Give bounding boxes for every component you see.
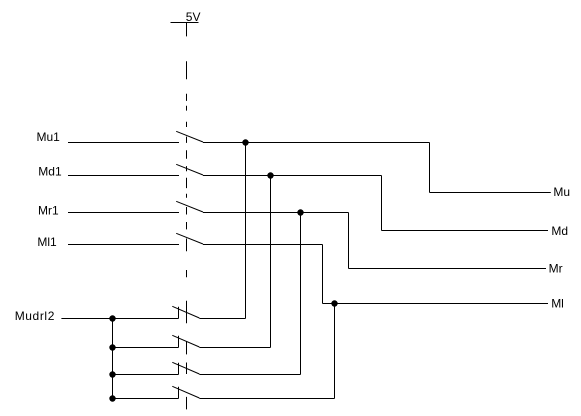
junction node bus row3: [109, 371, 115, 377]
wire row4 input: [113, 398, 179, 400]
switch row2 post: [178, 336, 180, 348]
wire Mudrl2 bus vertical: [112, 319, 114, 399]
wire Ml output: [323, 303, 549, 305]
power rail 5V bar: [171, 22, 199, 24]
junction node Mu1/row1: [242, 139, 248, 145]
wire row3 output: [199, 374, 300, 376]
wire Mu corner down: [429, 143, 431, 193]
switch row3 blade: [172, 362, 199, 374]
wire Ml1 input: [68, 244, 179, 246]
wire Ml corner down: [322, 245, 324, 304]
wire vertical Mu1 to row1 switch: [245, 143, 247, 319]
wire Ml1 output: [203, 244, 323, 246]
svg-text:5V: 5V: [186, 10, 201, 24]
wire Mr corner down: [348, 213, 350, 269]
svg-text:Mr: Mr: [549, 261, 563, 275]
wire row1 input: [113, 318, 179, 320]
wire row1 output: [199, 318, 245, 320]
wire Mr output: [349, 268, 547, 270]
wire Md1 input: [68, 175, 179, 177]
svg-text:Ml1: Ml1: [37, 235, 57, 249]
junction node Mr1/row3: [297, 209, 303, 215]
junction node Md1/row2: [267, 172, 273, 178]
wire Mu1 output: [203, 142, 430, 144]
wire Md output: [382, 230, 549, 232]
wire vertical Mr1 to row3 switch: [300, 213, 302, 375]
wire Mr1 input: [68, 212, 179, 214]
switch row4 blade: [172, 386, 199, 398]
wire row2 input: [113, 347, 179, 349]
switch row1 post: [178, 307, 180, 319]
switch row4 post: [178, 387, 180, 399]
svg-text:Md: Md: [551, 224, 568, 238]
svg-text:Mr1: Mr1: [38, 204, 59, 218]
wire vertical Ml to row4 switch: [334, 304, 336, 399]
junction node bus row1: [109, 315, 115, 321]
wire Mudrl2 input: [61, 318, 112, 320]
switch Mr1 blade: [176, 201, 203, 212]
wire row3 input: [113, 374, 179, 376]
junction node bus row2: [109, 344, 115, 350]
switch row2 blade: [172, 335, 199, 347]
wire Md1 output: [203, 175, 382, 177]
wire vertical Md1 to row2 switch: [270, 176, 272, 348]
dashed gang line: [186, 23, 188, 410]
switch row3 post: [178, 363, 180, 375]
junction node bus row4: [109, 395, 115, 401]
svg-text:Ml: Ml: [551, 296, 564, 310]
switch Ml1 blade: [176, 233, 203, 244]
svg-text:Mudrl2: Mudrl2: [15, 309, 55, 323]
svg-text:Mu: Mu: [553, 185, 570, 199]
switch Md1 blade: [176, 164, 203, 175]
wire Mr1 output: [203, 212, 349, 214]
svg-text:Md1: Md1: [38, 165, 62, 179]
wire Mu output: [430, 192, 551, 194]
wire Mu1 input: [68, 142, 179, 144]
svg-text:Mu1: Mu1: [37, 130, 61, 144]
wire Md corner down: [381, 176, 383, 231]
switch row1 blade: [172, 306, 199, 318]
wire row4 output: [199, 398, 334, 400]
wire row2 output: [199, 347, 270, 349]
junction node Ml/row4: [331, 300, 337, 306]
switch Mu1 blade: [176, 131, 203, 142]
